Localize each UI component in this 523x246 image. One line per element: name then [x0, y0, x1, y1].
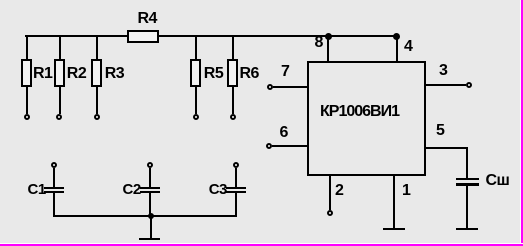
wire pin 1 lead [393, 176, 395, 228]
wire C3 bottom lead [235, 193, 237, 215]
label C2 [123, 182, 141, 198]
wire bottom bus C1-C2-C3 [53, 215, 236, 217]
pin label 1 [402, 183, 410, 199]
capacitor Сш top plate [456, 178, 479, 180]
label R4 [138, 11, 157, 27]
label R5 [204, 66, 223, 82]
ground C2 [139, 238, 160, 240]
wire R2 stub to rail [59, 35, 61, 59]
label C3 [209, 182, 227, 198]
terminal R1 [24, 114, 30, 120]
wire top supply rail [25, 35, 398, 38]
wire R5 bottom lead [195, 87, 197, 114]
ground Csh [456, 228, 478, 230]
node junction pin 4 [393, 33, 400, 40]
node junction pin 8 [325, 33, 332, 40]
pin label 8 [315, 35, 323, 51]
capacitor C3 bottom plate [226, 191, 246, 193]
selection border white strip right [520, 0, 521, 246]
wire pin 5 lead horizontal [426, 147, 468, 149]
wire Csh to ground [466, 185, 468, 228]
resistor R2 [54, 59, 65, 87]
wire C1 bottom lead [53, 193, 55, 215]
pin label 3 [439, 63, 447, 79]
resistor R5 [190, 59, 201, 87]
wire pin 7 lead [273, 86, 307, 88]
wire C2 junction to ground [150, 216, 152, 238]
wire R5 stub to rail [195, 35, 197, 59]
label R6 [240, 66, 259, 82]
wire pin 6 lead [272, 145, 307, 147]
label C1 [28, 182, 46, 198]
label КР1006ВИ1 [320, 104, 399, 120]
wire pin 3 lead [426, 84, 466, 86]
capacitor C1 top plate [44, 187, 64, 189]
selection border magenta right [521, 0, 523, 246]
wire C2 top lead [149, 168, 151, 187]
wire pin 5 to Csh vertical [466, 147, 468, 178]
terminal C3 top [233, 162, 239, 168]
capacitor C2 top plate [140, 187, 160, 189]
resistor R6 [227, 59, 238, 87]
wire R1 stub to rail [26, 35, 28, 59]
wire R3 bottom lead [96, 87, 98, 114]
selection border white strip bottom [0, 243, 523, 244]
capacitor Сш bottom plate [456, 183, 479, 186]
capacitor C1 bottom plate [44, 191, 64, 193]
terminal pin 7 [267, 84, 273, 90]
wire R3 stub to rail [96, 35, 98, 59]
wire R2 bottom lead [59, 87, 61, 114]
wire C3 top lead [235, 168, 237, 187]
pin label 4 [404, 39, 412, 55]
ground pin 1 [383, 228, 405, 230]
wire C2 bottom lead [149, 193, 151, 215]
pin label 6 [280, 125, 288, 141]
label R2 [67, 66, 86, 82]
wire R1 bottom lead [26, 87, 28, 114]
terminal R6 [230, 114, 236, 120]
op-amp U1 IC KP1006BИ1 body [307, 61, 426, 176]
node junction C2 ground [148, 213, 154, 219]
wire pin 2 lead [329, 176, 331, 210]
resistor R1 [21, 59, 32, 87]
label Сш [486, 173, 510, 189]
terminal C1 top [51, 162, 57, 168]
resistor R4 [127, 30, 159, 43]
label R1 [33, 66, 52, 82]
wire R6 bottom lead [232, 87, 234, 114]
resistor R3 [91, 59, 102, 87]
terminal R5 [193, 114, 199, 120]
label R3 [105, 66, 124, 82]
pin label 7 [281, 64, 289, 80]
wire pin 8 stub [327, 36, 329, 61]
terminal pin 3 [466, 82, 472, 88]
terminal C2 top [147, 162, 153, 168]
selection border magenta bottom [0, 244, 523, 246]
pin label 5 [436, 123, 444, 139]
capacitor C2 bottom plate [140, 191, 160, 193]
wire C1 top lead [53, 168, 55, 187]
pin label 2 [335, 183, 343, 199]
terminal pin 6 [266, 143, 272, 149]
wire pin 4 stub [396, 36, 398, 61]
wire R6 stub to rail [232, 35, 234, 59]
terminal R3 [94, 114, 100, 120]
capacitor C3 top plate [226, 187, 246, 189]
terminal R2 [56, 114, 62, 120]
terminal pin 2 [327, 210, 333, 216]
